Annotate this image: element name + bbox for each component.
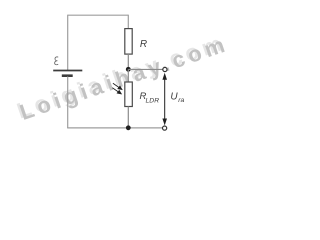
resistor R body bbox=[125, 29, 132, 54]
battery cell E: short plate bbox=[62, 74, 73, 77]
node B junction dot bbox=[126, 125, 131, 130]
watermark Loigiaihay.com bbox=[14, 29, 232, 126]
wire resistor R to node A bbox=[127, 54, 129, 69]
svg-text:LDR: LDR bbox=[146, 98, 160, 105]
battery cell E: long plate bbox=[53, 70, 82, 72]
wire left vertical upper (battery + to top) bbox=[67, 15, 69, 71]
wire bottom horizontal bbox=[67, 127, 162, 129]
terminal bottom (open circle) bbox=[163, 126, 167, 130]
light arrow 2 onto LDR bbox=[112, 88, 121, 94]
wire LDR to node B bbox=[127, 107, 129, 129]
wire left vertical lower (battery - to bottom) bbox=[67, 77, 69, 129]
terminal top (open circle) bbox=[163, 67, 167, 71]
wire node A to LDR bbox=[127, 69, 129, 82]
svg-text:U: U bbox=[170, 91, 178, 102]
wire top horizontal bbox=[68, 14, 129, 16]
photoresistor R_LDR body bbox=[125, 82, 133, 107]
light arrow 1 onto LDR bbox=[113, 83, 122, 89]
node A junction dot bbox=[126, 67, 131, 72]
wire right vertical (top wire to resistor R) bbox=[127, 15, 129, 29]
wire node A to output terminal top bbox=[128, 68, 163, 70]
svg-text:Loigiaihay.com: Loigiaihay.com bbox=[17, 31, 232, 125]
battery label script-E bbox=[55, 57, 59, 65]
svg-text:R: R bbox=[140, 39, 147, 50]
voltage arrow U_ra (double headed) bbox=[163, 74, 166, 124]
svg-text:ra: ra bbox=[178, 97, 184, 104]
